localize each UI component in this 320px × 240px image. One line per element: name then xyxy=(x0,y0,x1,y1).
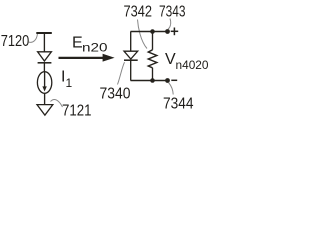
leader from 7343 to plus terminal xyxy=(168,19,171,30)
terminal bar 7120 (node) xyxy=(36,32,52,34)
wire current source to bottom arrow xyxy=(44,93,46,105)
bottom terminal arrow (node 7121) xyxy=(37,105,53,116)
noise arrow E_n20 xyxy=(59,57,105,59)
svg-text:1: 1 xyxy=(66,76,73,90)
svg-text:7343: 7343 xyxy=(159,4,186,21)
resistor top lead xyxy=(152,32,154,50)
svg-text:V: V xyxy=(165,51,176,68)
leader from 7120 to top terminal xyxy=(29,34,38,42)
svg-text:7342: 7342 xyxy=(124,4,153,21)
left vertical wire of loop xyxy=(130,32,132,52)
svg-text:7340: 7340 xyxy=(100,85,131,102)
leader from bottom arrow to 7121 xyxy=(51,99,63,107)
junction dot bottom xyxy=(150,78,155,83)
leader from 7340 to photodiode xyxy=(118,62,125,84)
svg-text:7120: 7120 xyxy=(1,33,30,50)
svg-text:n20: n20 xyxy=(82,41,108,55)
current source I1 ellipse xyxy=(37,72,51,94)
top wire of output loop xyxy=(131,31,168,33)
svg-text:n4020: n4020 xyxy=(176,58,209,72)
current source arrow xyxy=(44,72,46,87)
terminal dot 7343 (+) xyxy=(165,29,170,34)
resistor zigzag xyxy=(148,50,157,68)
photodiode 7340 (pointing down) xyxy=(124,51,138,59)
leader from 7342 to resistor xyxy=(138,20,148,49)
junction dot top (resistor tap) xyxy=(150,29,155,34)
minus sign xyxy=(171,79,177,81)
wire from terminal to diode xyxy=(43,33,45,52)
terminal dot 7344 (-) xyxy=(165,78,170,83)
plus sign xyxy=(171,30,179,32)
svg-text:7121: 7121 xyxy=(62,103,92,120)
wire diode to current source xyxy=(43,63,45,72)
diode D1 (left branch, pointing down) xyxy=(38,52,52,61)
svg-text:7344: 7344 xyxy=(163,95,194,112)
bottom wire of loop xyxy=(131,80,168,82)
leader from minus terminal to 7344 xyxy=(169,83,174,95)
resistor bottom lead xyxy=(152,68,154,81)
